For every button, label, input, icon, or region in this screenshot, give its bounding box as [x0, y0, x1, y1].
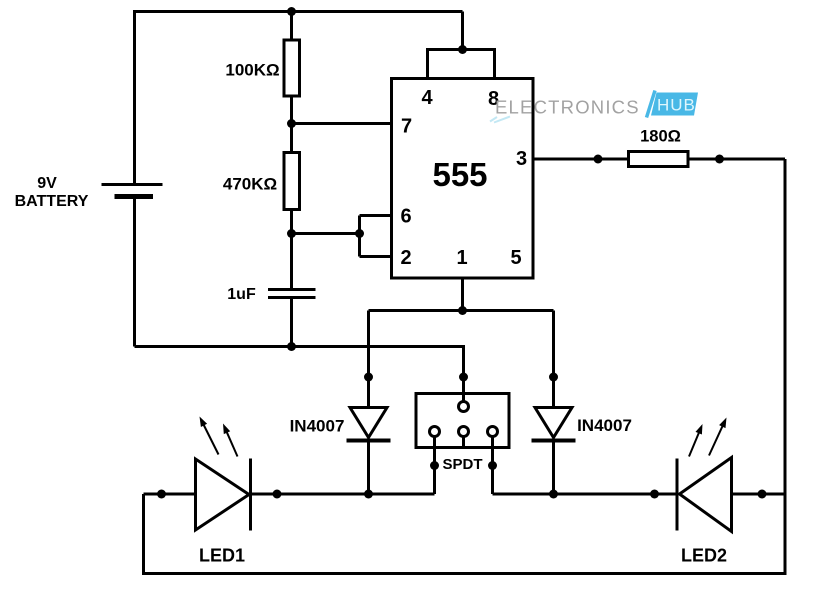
svg-text:1uF: 1uF: [227, 286, 256, 303]
svg-text:1: 1: [456, 247, 467, 269]
svg-text:180Ω: 180Ω: [640, 128, 681, 146]
wire LED2 anode to right rail: [732, 493, 786, 496]
op-amp U1 555 timer body: [392, 79, 534, 279]
wire pin 6 stub: [360, 214, 392, 217]
node battery+/R1 top rail: [287, 7, 296, 16]
node C1 bottom rail: [287, 342, 296, 351]
wire SPDT right throw down: [491, 435, 494, 494]
wire R3 to right rail: [688, 158, 785, 161]
wire C1 top stub: [290, 234, 293, 289]
resistor R1 100K: [284, 40, 300, 96]
wire SPDT right to LED2 cathode: [493, 493, 678, 496]
svg-text:HUB: HUB: [657, 96, 696, 115]
svg-text:555: 555: [432, 156, 487, 193]
wire bracket joining pins 4 and 8: [428, 50, 495, 80]
wire node to pin 6/2 bracket: [292, 232, 360, 235]
svg-text:9V: 9V: [37, 175, 57, 192]
node pin3 wire left: [594, 155, 603, 164]
switch SPDT body: [416, 394, 509, 448]
wire D2 branch lower: [552, 441, 555, 495]
watermark electronics hub: [490, 91, 698, 123]
svg-text:7: 7: [401, 116, 412, 138]
wire LED1 anode lead: [144, 493, 197, 496]
wire node to pin 7: [292, 122, 391, 125]
node SPDT left throw: [430, 461, 439, 470]
svg-text:2: 2: [400, 247, 411, 269]
svg-text:LED2: LED2: [681, 546, 727, 566]
wire battery negative lead: [133, 197, 136, 347]
wire bottom rail: [144, 572, 787, 575]
node R3 right: [715, 155, 724, 164]
svg-text:4: 4: [421, 87, 433, 109]
wire pin 3 to R3: [533, 158, 629, 161]
wire D1 branch upper: [367, 311, 370, 408]
node LED1 anode: [157, 490, 166, 499]
wire C1 bottom stub: [290, 299, 293, 347]
wire SPDT common feed down: [462, 345, 465, 402]
wire pin 2 stub: [360, 255, 392, 258]
svg-text:SPDT: SPDT: [442, 456, 482, 473]
svg-text:IN4007: IN4007: [577, 416, 632, 435]
node D1 branch: [364, 373, 373, 382]
LED1 emission arrow 1: [200, 417, 219, 455]
wire SPDT common stub inside body: [462, 392, 465, 402]
LED1: [196, 459, 251, 531]
LED2: [677, 458, 732, 532]
diode D1 IN4007: [347, 408, 391, 441]
svg-text:470KΩ: 470KΩ: [223, 175, 277, 194]
SPDT common terminal: [459, 402, 469, 412]
wire R2 bottom stub: [290, 209, 293, 234]
wire tee line under 555: [369, 309, 554, 312]
svg-text:6: 6: [400, 206, 411, 228]
wire battery positive lead: [133, 10, 136, 184]
diode D2 IN4007: [532, 408, 576, 441]
wire R1 top stub: [290, 12, 293, 42]
svg-text:ELECTRONICS: ELECTRONICS: [495, 97, 640, 118]
wire right rail vertical: [784, 159, 787, 575]
SPDT throw terminal middle: [459, 427, 469, 437]
node R1/R2/pin7: [287, 119, 296, 128]
battery B1 9V: [102, 185, 163, 197]
node bracket 6/2: [355, 229, 364, 238]
LED2 emission arrow 2: [709, 418, 727, 456]
node D1 at LED1 wire: [364, 490, 373, 499]
node bracket feed: [458, 45, 467, 54]
wire pin 1 down: [461, 278, 464, 311]
wire bottom rail battery to SPDT common: [135, 345, 464, 348]
node LED2 anode: [758, 490, 767, 499]
svg-text:100KΩ: 100KΩ: [225, 61, 279, 80]
resistor R3 180 ohm: [629, 152, 689, 167]
svg-text:BATTERY: BATTERY: [15, 193, 89, 210]
node SPDT feed: [459, 373, 468, 382]
node D2 branch: [549, 373, 558, 382]
wire top rail from battery to 555 bracket feed: [135, 10, 463, 13]
wire R1 bottom stub: [290, 96, 293, 124]
svg-text:LED1: LED1: [199, 546, 245, 566]
node LED1 cathode: [273, 490, 282, 499]
wire SPDT middle throw stub: [462, 435, 465, 449]
wire left frame vertical: [142, 494, 145, 575]
wire bracket vertical joining pins 6 and 2: [358, 216, 361, 257]
resistor R2 470K: [284, 153, 300, 210]
node D2 at LED2 wire: [549, 490, 558, 499]
wire R2 top stub: [290, 124, 293, 154]
wire D1 branch lower: [367, 441, 370, 495]
LED1 emission arrow 2: [223, 424, 238, 457]
svg-text:3: 3: [516, 148, 527, 170]
wire LED1 cathode to SPDT left: [250, 493, 435, 496]
wire SPDT left throw down: [433, 435, 436, 494]
SPDT throw terminal right: [488, 427, 498, 437]
svg-text:IN4007: IN4007: [290, 417, 345, 436]
LED2 emission arrow 1: [689, 424, 703, 457]
capacitor C1 1uF: [268, 290, 316, 298]
wire top bracket feed down: [461, 12, 464, 50]
node SPDT right throw: [488, 461, 497, 470]
SPDT throw terminal left: [430, 427, 440, 437]
svg-text:5: 5: [510, 247, 521, 269]
node LED2 cathode: [650, 490, 659, 499]
wire D2 branch upper: [552, 311, 555, 408]
node R2/C1: [287, 229, 296, 238]
node pin1 tee: [458, 306, 467, 315]
